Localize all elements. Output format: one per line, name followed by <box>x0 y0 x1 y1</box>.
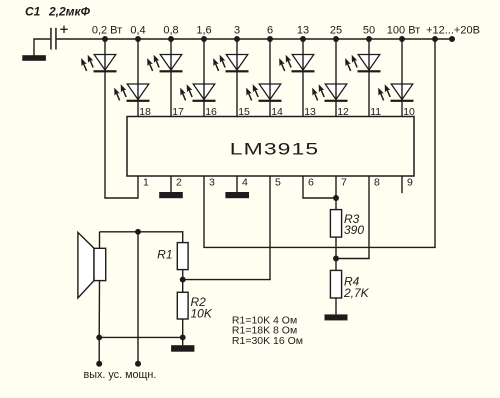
wire <box>203 40 435 247</box>
node spk <box>96 334 102 340</box>
svg-text:13: 13 <box>297 25 309 37</box>
label 50 <box>363 25 375 37</box>
wire <box>236 39 238 117</box>
pin 14 <box>271 106 283 118</box>
resistor R4 <box>330 270 341 298</box>
pin 2 <box>176 177 182 189</box>
LED 50 <box>343 54 381 73</box>
label LM3915 <box>230 140 319 159</box>
capacitor C1 label <box>25 5 91 19</box>
speaker horn <box>78 232 94 298</box>
LED 1,6 <box>178 83 216 102</box>
svg-text:9: 9 <box>407 177 413 189</box>
resistor R3 <box>330 210 341 238</box>
svg-text:12: 12 <box>337 106 349 118</box>
ground <box>225 192 249 198</box>
node 1 <box>102 36 108 42</box>
node A <box>135 229 141 235</box>
wire <box>335 237 337 270</box>
svg-text:+12...+20В: +12...+20В <box>426 25 480 37</box>
svg-text:7: 7 <box>341 177 347 189</box>
svg-text:16: 16 <box>205 106 217 118</box>
pin 1 <box>143 177 149 189</box>
pin 12 <box>337 106 349 118</box>
wire <box>302 176 336 198</box>
label R4 2,7K <box>343 275 370 301</box>
wire <box>137 232 139 363</box>
node R2 gnd <box>180 334 186 340</box>
pin 7 <box>341 177 347 189</box>
wire <box>34 38 50 55</box>
LED 100 Вт <box>376 83 414 102</box>
svg-text:14: 14 <box>271 106 283 118</box>
svg-text:2,7K: 2,7K <box>343 286 370 300</box>
wire <box>335 39 337 117</box>
svg-text:LM3915: LM3915 <box>230 140 319 159</box>
capacitor C1 <box>50 26 67 50</box>
note R1 values <box>232 314 303 347</box>
LED 13 <box>277 54 315 73</box>
svg-text:6: 6 <box>308 177 314 189</box>
pin 9 <box>407 177 413 189</box>
pin 15 <box>238 106 250 118</box>
node 2 <box>135 36 141 42</box>
LED 3 <box>211 54 249 73</box>
svg-text:11: 11 <box>370 106 381 118</box>
pin 5 <box>275 177 281 189</box>
label 1,6 <box>196 25 211 37</box>
label +12...+20В <box>426 25 480 37</box>
node 8 <box>333 36 339 42</box>
svg-text:50: 50 <box>363 25 375 37</box>
svg-text:15: 15 <box>238 106 250 118</box>
LED 6 <box>244 83 282 102</box>
node 5 <box>234 36 240 42</box>
pin 10 <box>403 106 415 118</box>
ground <box>22 55 46 61</box>
ground <box>325 314 348 320</box>
label 0,4 <box>130 25 145 37</box>
wire <box>368 39 370 117</box>
svg-text:10K: 10K <box>191 307 213 321</box>
svg-text:13: 13 <box>304 106 316 118</box>
pin 6 <box>308 177 314 189</box>
label 0,2 Вт <box>92 25 122 37</box>
LED 25 <box>310 83 348 102</box>
label 0,8 <box>163 25 178 37</box>
svg-text:10: 10 <box>403 106 415 118</box>
wire <box>57 38 452 40</box>
pin 3 <box>209 177 215 189</box>
svg-text:3: 3 <box>234 25 240 37</box>
wire <box>183 176 271 280</box>
LED 0,8 <box>145 54 183 73</box>
node 7 <box>300 36 306 42</box>
wire <box>98 281 100 364</box>
wire <box>335 298 337 314</box>
pin 8 <box>374 177 380 189</box>
terminal out2 <box>135 361 141 367</box>
ground <box>159 192 183 198</box>
label R2 10K <box>191 295 213 321</box>
svg-text:1: 1 <box>143 177 149 189</box>
svg-text:вых. ус. мощн.: вых. ус. мощн. <box>84 369 157 381</box>
node R3/R4 <box>333 256 339 262</box>
pin 16 <box>205 106 217 118</box>
svg-text:100 Вт: 100 Вт <box>387 25 420 37</box>
ground <box>171 345 194 352</box>
pin 18 <box>139 106 151 118</box>
wire <box>401 176 403 193</box>
wire <box>100 231 183 248</box>
svg-text:R1=30K 16 Ом: R1=30K 16 Ом <box>232 335 303 347</box>
pin 13 <box>304 106 316 118</box>
terminal +12..+20V <box>449 36 455 42</box>
wire <box>99 336 183 338</box>
wire <box>137 39 139 117</box>
IC U1 LM3915 <box>127 117 414 177</box>
svg-text:18: 18 <box>139 106 151 118</box>
svg-text:1,6: 1,6 <box>196 25 211 37</box>
node 9 <box>366 36 372 42</box>
node 4 <box>201 36 207 42</box>
wire <box>336 176 370 259</box>
label R1 <box>157 248 172 262</box>
label 13 <box>297 25 309 37</box>
svg-text:2: 2 <box>176 177 182 189</box>
wire <box>401 39 403 117</box>
wire <box>335 176 337 210</box>
svg-text:0,8: 0,8 <box>163 25 178 37</box>
wire <box>269 39 271 117</box>
svg-text:8: 8 <box>374 177 380 189</box>
resistor R2 <box>177 292 188 319</box>
wire <box>104 39 138 199</box>
svg-text:390: 390 <box>344 223 364 237</box>
node 6 <box>267 36 273 42</box>
LED 0,2 Вт <box>79 54 117 73</box>
wire <box>170 39 172 117</box>
label вых. ус. мощн. <box>84 369 157 381</box>
LED 0,4 <box>112 83 150 102</box>
svg-text:17: 17 <box>172 106 184 118</box>
wire <box>182 319 184 345</box>
svg-text:C1: C1 <box>25 5 41 19</box>
svg-text:6: 6 <box>267 25 273 37</box>
svg-text:5: 5 <box>275 177 281 189</box>
node R1/R2 <box>180 277 186 283</box>
node supply <box>432 36 438 42</box>
svg-text:0,2 Вт: 0,2 Вт <box>92 25 122 37</box>
node 3 <box>168 36 174 42</box>
wire <box>203 39 205 117</box>
label 3 <box>234 25 240 37</box>
wire <box>182 270 184 293</box>
svg-text:25: 25 <box>330 25 342 37</box>
label R3 390 <box>344 212 364 237</box>
pin 4 <box>242 177 248 189</box>
wire <box>236 176 238 192</box>
label 6 <box>267 25 273 37</box>
pin 11 <box>370 106 381 118</box>
svg-text:2,2мкФ: 2,2мкФ <box>48 5 91 19</box>
label 100 Вт <box>387 25 420 37</box>
terminal out1 <box>96 361 102 367</box>
svg-text:3: 3 <box>209 177 215 189</box>
resistor R1 <box>177 243 188 270</box>
wire <box>302 39 304 117</box>
wire <box>170 176 172 192</box>
svg-text:0,4: 0,4 <box>130 25 145 37</box>
svg-text:4: 4 <box>242 177 248 189</box>
label 25 <box>330 25 342 37</box>
speaker box <box>94 248 106 280</box>
pin 17 <box>172 106 184 118</box>
node 10 <box>399 36 405 42</box>
svg-text:R1: R1 <box>157 248 172 262</box>
node pin7 <box>333 195 339 201</box>
